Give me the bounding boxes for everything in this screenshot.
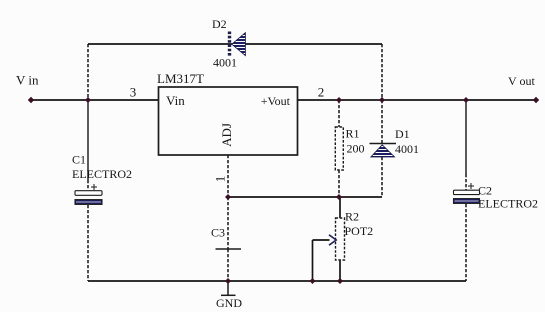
svg-text:POT2: POT2	[345, 224, 374, 238]
junction: ADJ rail / pin 1	[225, 194, 231, 200]
junction: output rail / R1	[336, 97, 342, 103]
wire: R2 wiper horizontal	[313, 239, 330, 241]
svg-text:V in: V in	[16, 73, 39, 88]
wire: C2 lower lead	[465, 204, 467, 281]
svg-text:3: 3	[130, 85, 137, 100]
svg-text:Vin: Vin	[166, 93, 185, 108]
junction: ground rail / R2 bottom	[337, 278, 343, 284]
wire: R2 upper lead	[339, 197, 341, 218]
svg-text:2: 2	[318, 85, 325, 100]
potentiometer R2 (POT2)	[329, 210, 373, 261]
svg-text:GND: GND	[216, 296, 242, 310]
svg-text:ADJ: ADJ	[219, 123, 234, 147]
wire: R2 wiper drop	[312, 240, 314, 281]
wire: bottom ground rail	[88, 280, 466, 282]
wire: R1 upper lead	[338, 100, 340, 127]
svg-text:ELECTRO2: ELECTRO2	[478, 197, 538, 211]
wire: ADJ pin lead (pin 1)	[227, 155, 229, 197]
svg-text:C2: C2	[478, 184, 492, 198]
junction: output rail / C2	[463, 97, 469, 103]
wire: R2 lower lead	[339, 260, 341, 281]
svg-text:C3: C3	[211, 226, 225, 240]
svg-text:+Vout: +Vout	[261, 94, 291, 108]
wire: C1 lower lead	[87, 205, 89, 281]
junction: ground rail / C3 GND	[225, 278, 231, 284]
svg-text:200: 200	[347, 142, 365, 156]
junction: ADJ rail / R1 bottom	[336, 194, 342, 200]
wire: D1 lower lead	[381, 157, 383, 197]
junction: output rail / D1 riser	[379, 97, 385, 103]
wire: C3 lower lead	[227, 249, 229, 281]
svg-text:D2: D2	[212, 17, 227, 31]
junction: Vin rail / C1 riser	[85, 97, 91, 103]
svg-text:4001: 4001	[213, 56, 237, 70]
svg-text:C1: C1	[72, 153, 86, 167]
svg-text:R2: R2	[345, 210, 359, 224]
svg-text:1: 1	[213, 176, 228, 183]
node V in terminal	[16, 73, 39, 104]
diode D1 (4001, output to ADJ)	[370, 127, 420, 157]
svg-text:4001: 4001	[395, 142, 419, 156]
wire: top loop horizontal	[88, 43, 382, 45]
node V out terminal	[508, 74, 539, 103]
junction: ground rail / wiper	[310, 278, 316, 284]
wire: C1 upper lead	[87, 100, 89, 180]
svg-text:ELECTRO2: ELECTRO2	[72, 167, 132, 181]
wire: ADJ rail (mid horizontal)	[228, 196, 382, 198]
ground symbol GND	[216, 281, 242, 310]
resistor R1 (200)	[335, 127, 364, 171]
wire: R1 lower lead	[338, 170, 340, 197]
wire: Vin rail (terminal to regulator pin 3)	[31, 99, 158, 101]
wire: left riser (top corner to Vin rail)	[87, 44, 89, 100]
wire: right riser (top corner down to output rail)	[381, 44, 383, 100]
wire: C3 upper lead	[227, 197, 229, 249]
wire: D1 upper lead	[381, 100, 383, 143]
svg-text:V out: V out	[508, 74, 535, 88]
wire: output rail (pin 2 to Vout terminal)	[297, 99, 536, 101]
svg-text:R1: R1	[346, 127, 360, 141]
regulator U1: LM317T body	[157, 71, 298, 155]
svg-text:D1: D1	[395, 127, 410, 141]
wire: C2 upper lead	[465, 100, 467, 174]
svg-text:LM317T: LM317T	[157, 71, 204, 86]
capacitor C1 (ELECTRO2)	[72, 153, 132, 205]
diode D2 (4001, top loop)	[212, 17, 245, 70]
capacitor C2 (ELECTRO2)	[454, 183, 539, 211]
capacitor C3	[211, 226, 241, 250]
